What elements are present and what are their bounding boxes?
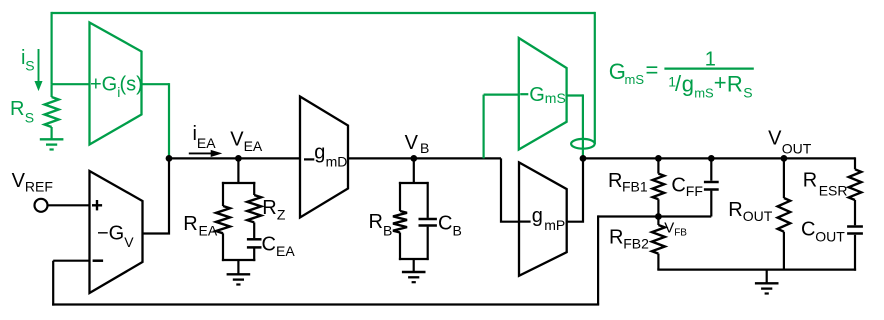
label iEA: [193, 123, 217, 151]
svg-text:(s): (s): [120, 74, 143, 96]
label -gmD: [304, 142, 347, 170]
wire VB tap up to GmS input: [484, 95, 519, 159]
wire node iS to amp Gi input: [52, 83, 90, 85]
svg-text:+: +: [714, 70, 727, 95]
svg-text:EA: EA: [199, 223, 218, 239]
svg-text:V: V: [12, 170, 26, 192]
wire EA network top bar: [222, 182, 255, 184]
wire bottom ground rail: [657, 269, 856, 271]
svg-text:FB1: FB1: [622, 178, 648, 194]
svg-text:C: C: [801, 218, 815, 240]
wire EA network ground stem: [237, 260, 239, 274]
node VFB: [655, 213, 662, 220]
resistor RFB2: [652, 217, 665, 270]
svg-text:mS: mS: [625, 72, 645, 87]
svg-text:+G: +G: [90, 74, 117, 96]
wire B network ground stem: [413, 259, 415, 272]
wire amp Gi output to main node: [142, 83, 170, 158]
node RFB1 top: [655, 155, 662, 162]
wire VREF to GV + input: [48, 204, 90, 206]
svg-text:R: R: [369, 211, 383, 233]
svg-text:g: g: [682, 71, 694, 96]
node VEA: [235, 155, 242, 162]
svg-text:C: C: [671, 175, 685, 197]
op-amp gmP: [519, 162, 567, 275]
svg-text:−G: −G: [97, 223, 124, 245]
current sense loop (ellipse): [571, 139, 595, 149]
svg-text:EA: EA: [197, 135, 216, 151]
resistor REA: [216, 182, 230, 261]
label CB: [438, 213, 462, 239]
resistor RESR: [849, 169, 862, 225]
svg-text:R: R: [803, 170, 817, 192]
svg-text:FF: FF: [686, 183, 703, 199]
svg-text:G: G: [529, 84, 545, 106]
svg-text:ESR: ESR: [819, 183, 848, 199]
current arrow iS: [35, 49, 42, 90]
wire main node to gmD input: [169, 157, 300, 159]
node VB: [410, 155, 417, 162]
svg-text:OUT: OUT: [815, 228, 845, 244]
wire VFB horizontal: [598, 215, 711, 217]
capacitor CEA: [247, 239, 262, 261]
current arrow iEA: [189, 151, 221, 157]
svg-text:R: R: [609, 227, 623, 249]
svg-text:R: R: [183, 213, 197, 235]
svg-text:C: C: [438, 213, 452, 235]
svg-text:S: S: [25, 109, 34, 125]
svg-text:B: B: [420, 140, 429, 156]
label RS: [10, 98, 34, 126]
wire EA network bottom bar: [222, 259, 255, 261]
resistor RFB1: [653, 158, 665, 216]
wire gmD output to gmP input: [348, 158, 519, 221]
wire feedback VFB to GV - input: [52, 215, 599, 305]
node CFF top: [708, 155, 715, 162]
svg-text:EA: EA: [276, 243, 295, 259]
formula GmS = 1/(1/gms+RS): [609, 48, 754, 100]
svg-text:V: V: [230, 128, 244, 150]
wire B network bottom bar: [399, 258, 429, 260]
label CEA: [262, 233, 296, 258]
svg-text:g: g: [532, 205, 543, 227]
wire green sense top rail: [52, 12, 595, 144]
label -GV: [97, 223, 134, 251]
label RFB1: [608, 170, 648, 194]
svg-text:V: V: [405, 132, 419, 154]
wire GV output up to main node: [142, 158, 169, 233]
node junction amp outputs: [166, 155, 173, 162]
op-amp Gi (current gain): [90, 23, 142, 145]
capacitor COUT: [847, 227, 863, 271]
label RZ: [262, 197, 286, 223]
ground (RS): [40, 138, 64, 140]
svg-text:Z: Z: [277, 207, 286, 223]
wire ground stem output: [766, 270, 768, 284]
label iS: [21, 47, 35, 74]
label RFB2: [609, 227, 649, 252]
svg-text:EA: EA: [244, 138, 263, 154]
wire ESR branch from rail: [854, 157, 856, 169]
svg-text:V: V: [124, 234, 134, 250]
svg-text:R: R: [262, 197, 276, 219]
ground (output): [755, 282, 779, 284]
svg-text:FB2: FB2: [623, 236, 649, 252]
wire gmP output up to output node: [567, 158, 583, 221]
svg-text:S: S: [25, 57, 34, 73]
label VREF: [12, 170, 53, 194]
label ROUT: [728, 199, 772, 224]
wire VB node down to B network: [413, 158, 415, 183]
pin - of GV: [93, 259, 104, 262]
ground (B network): [402, 271, 426, 273]
input terminal VREF: [35, 199, 48, 212]
resistor RS: [45, 84, 59, 139]
label RB: [369, 211, 393, 238]
label -GmS: [520, 84, 566, 106]
svg-text:mD: mD: [326, 154, 348, 170]
label VFB: [664, 220, 687, 239]
wire B network top bar: [399, 182, 429, 184]
label RESR: [803, 170, 848, 199]
svg-text:=: =: [646, 58, 659, 83]
wire VEA node down to EA network: [237, 158, 239, 183]
op-amp GmS (green): [519, 38, 567, 150]
capacitor CB: [419, 182, 437, 260]
svg-text:R: R: [728, 199, 742, 221]
capacitor CFF: [704, 158, 719, 216]
svg-text:B: B: [453, 222, 462, 238]
svg-text:V: V: [768, 127, 782, 149]
svg-text:mS: mS: [545, 90, 566, 106]
node VOUT: [781, 155, 788, 162]
label VB: [405, 132, 430, 156]
op-amp GV (error amplifier): [90, 171, 143, 293]
label VEA: [230, 128, 263, 154]
svg-text:S: S: [743, 84, 752, 100]
svg-text:R: R: [608, 170, 622, 192]
op-amp gmD: [300, 97, 348, 218]
svg-text:B: B: [383, 222, 392, 238]
label COUT: [801, 218, 845, 244]
svg-text:mS: mS: [694, 85, 714, 100]
svg-text:OUT: OUT: [782, 141, 812, 157]
wire GmS output down to output node: [567, 94, 583, 158]
svg-text:1: 1: [705, 48, 716, 70]
pin + of GV: [92, 200, 102, 210]
label REA: [183, 213, 218, 239]
svg-text:REF: REF: [25, 178, 53, 194]
svg-text:R: R: [727, 71, 743, 96]
ground (EA network): [227, 273, 251, 275]
svg-text:C: C: [262, 233, 276, 255]
svg-text:mP: mP: [544, 217, 565, 233]
resistor RB: [393, 182, 407, 260]
label VOUT: [768, 127, 812, 156]
svg-text:R: R: [10, 98, 24, 120]
label +Gi(s): [90, 74, 143, 101]
label CFF: [671, 175, 703, 200]
label -gmP: [520, 205, 565, 233]
wire VOUT rail: [583, 157, 855, 159]
svg-text:G: G: [609, 59, 626, 84]
svg-text:g: g: [314, 142, 325, 164]
node output: [580, 155, 587, 162]
resistor RZ: [247, 182, 261, 238]
resistor ROUT: [778, 158, 791, 269]
svg-text:FB: FB: [674, 227, 687, 238]
svg-text:OUT: OUT: [743, 208, 773, 224]
